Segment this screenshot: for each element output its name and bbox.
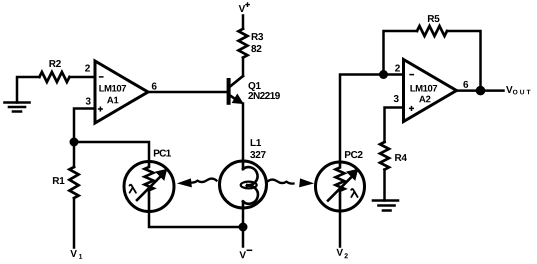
wire R4 to ground [383,170,386,201]
wire lamp to V- node [242,208,245,227]
light arrow left [179,179,217,187]
wire A1 output to base [148,91,227,94]
resistor R4 [380,142,407,170]
wire R1 to V1 [73,198,76,247]
wire V- stub [242,227,245,247]
wire node B to A2 pin2 [384,73,404,76]
resistor R5 [417,15,447,36]
wire R3 to collector [242,58,245,76]
op-amp U2 A2 LM107 [394,60,469,122]
resistor R2 [39,60,69,82]
wire V+ to R3 [242,16,245,29]
ground [5,103,30,112]
node A junction [70,138,79,147]
wire A1 pin3 to node A [74,109,95,143]
wire R2 to A1 pin2 [70,76,95,79]
node V- junction [239,223,248,232]
wire PC2 to V2 [339,211,342,247]
wire node A to PC1 [74,142,149,162]
wire A2 pin3 to R4 [385,108,404,143]
wire node A to R1 [73,142,76,167]
lamp L1 327 [220,139,267,208]
node V+ label [239,3,250,12]
photocell PC2 [316,151,365,211]
node VOUT label [506,86,530,94]
photocell PC1 [124,150,174,212]
wire A2 output to VOUT [457,89,504,92]
resistor R1 [53,167,79,198]
wire PC2 top to node B [340,75,384,163]
node V2 [336,249,347,258]
op-amp U1 A1 LM107 [85,61,157,123]
wire R5 to output node [447,31,481,91]
wire ground to R2 [17,77,39,103]
resistor R3 82 [239,29,264,58]
wire node B to R5 [384,31,418,75]
node V1 [70,250,82,259]
node B junction [379,70,388,79]
light arrow right [268,179,313,187]
ground [373,201,398,211]
wire emitter to lamp [242,104,245,162]
transistor Q1 2N2219 [229,76,280,104]
wire PC1 to V- node [149,212,243,228]
node output junction [476,86,486,96]
node V- label [239,250,251,258]
